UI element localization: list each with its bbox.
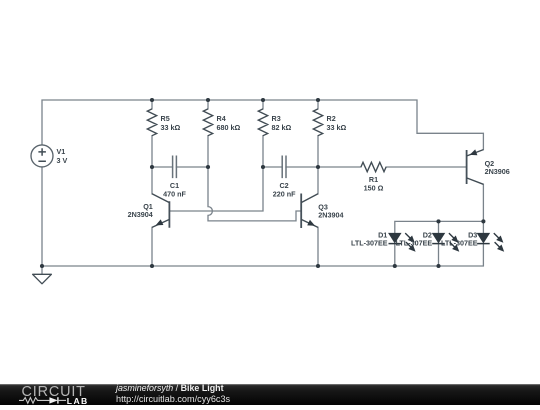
svg-text:470 nF: 470 nF <box>163 190 186 199</box>
svg-text:33 kΩ: 33 kΩ <box>327 123 347 132</box>
svg-text:220 nF: 220 nF <box>273 190 296 199</box>
svg-text:jasmineforsyth / Bike Light: jasmineforsyth / Bike Light <box>115 383 224 393</box>
svg-text:33 kΩ: 33 kΩ <box>161 123 181 132</box>
svg-text:2N3904: 2N3904 <box>318 210 343 219</box>
svg-text:R1: R1 <box>369 175 378 184</box>
svg-text:2N3904: 2N3904 <box>128 210 153 219</box>
svg-text:LTL-307EE: LTL-307EE <box>351 239 388 248</box>
svg-text:R5: R5 <box>161 114 170 123</box>
svg-text:R2: R2 <box>327 114 336 123</box>
svg-text:R3: R3 <box>272 114 281 123</box>
svg-text:3 V: 3 V <box>57 156 68 165</box>
svg-text:http://circuitlab.com/cyy6c3s: http://circuitlab.com/cyy6c3s <box>116 394 231 404</box>
svg-text:680 kΩ: 680 kΩ <box>217 123 241 132</box>
svg-text:2N3906: 2N3906 <box>485 167 510 176</box>
svg-text:R4: R4 <box>217 114 226 123</box>
svg-text:LTL-307EE: LTL-307EE <box>396 239 433 248</box>
svg-text:82 kΩ: 82 kΩ <box>272 123 292 132</box>
svg-text:LAB: LAB <box>67 396 89 405</box>
svg-text:LTL-307EE: LTL-307EE <box>441 239 478 248</box>
svg-text:150 Ω: 150 Ω <box>364 184 384 193</box>
